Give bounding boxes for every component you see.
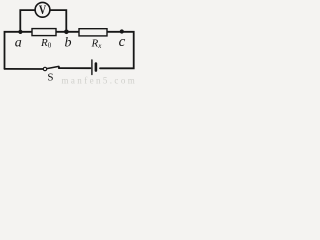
label a (node a) bbox=[15, 36, 22, 51]
node a junction dot bbox=[18, 30, 22, 34]
label S (switch) bbox=[47, 72, 53, 84]
svg-text:S: S bbox=[47, 72, 53, 84]
switch S contact dot bbox=[58, 66, 60, 68]
label R0 (resistor R0 value) bbox=[40, 37, 52, 50]
label V (voltmeter) bbox=[39, 3, 47, 17]
wire: segment between R0 and Rx through node b bbox=[56, 31, 79, 33]
svg-text:manfen5.com: manfen5.com bbox=[62, 76, 138, 86]
svg-text:V: V bbox=[39, 3, 47, 17]
watermark bbox=[62, 76, 138, 86]
voltmeter U1 circle bbox=[35, 2, 50, 17]
wire: bottom left segment to switch bbox=[5, 68, 44, 70]
label b (node b) bbox=[65, 36, 72, 51]
wire: Rx to node c to right corner and right edge down bbox=[100, 32, 134, 69]
resistor R0 box bbox=[32, 29, 56, 36]
wire: switch to battery bbox=[59, 67, 91, 69]
svg-text:c: c bbox=[119, 34, 126, 50]
label c (node c) bbox=[119, 34, 126, 50]
label Rx (resistor Rx value) bbox=[91, 37, 103, 50]
wire: voltmeter right to node b vertical bbox=[50, 10, 66, 32]
svg-text:R0: R0 bbox=[40, 37, 52, 50]
switch S pivot circle bbox=[43, 67, 46, 70]
switch S lever bbox=[47, 66, 59, 68]
resistor Rx box bbox=[79, 29, 107, 36]
svg-text:a: a bbox=[15, 36, 22, 51]
node b junction dot bbox=[64, 30, 69, 35]
wire: node a up to voltmeter bbox=[20, 10, 35, 32]
wire: left corner up and main top horizontal to R0 bbox=[5, 32, 33, 69]
battery short plate (negative) bbox=[95, 64, 98, 71]
svg-text:Rx: Rx bbox=[91, 37, 103, 50]
svg-text:b: b bbox=[65, 36, 72, 51]
node c junction dot bbox=[120, 29, 124, 33]
battery long plate (positive) bbox=[91, 60, 93, 75]
